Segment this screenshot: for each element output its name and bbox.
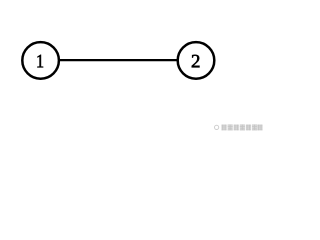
node 2 circle — [178, 42, 215, 79]
watermark char 8 — [257, 125, 262, 131]
wire edge between node 1 and node 2 — [59, 59, 177, 61]
watermark char 6 — [246, 125, 251, 131]
watermark char 5 — [240, 124, 245, 130]
watermark char 3 — [228, 124, 233, 130]
watermark char 7 — [252, 124, 257, 130]
node 1 label "1" — [37, 55, 43, 68]
watermark char @ — [215, 125, 219, 129]
node 1 circle — [22, 42, 59, 79]
watermark char 2 — [221, 125, 226, 131]
watermark char 4 — [234, 125, 239, 131]
node 2 label "2" — [192, 55, 200, 68]
